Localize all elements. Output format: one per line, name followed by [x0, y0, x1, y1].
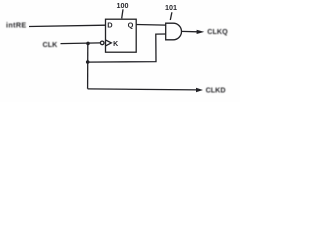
svg-text:Q: Q [128, 20, 134, 29]
wire CLK to clock bubble [61, 42, 101, 45]
svg-text:intRE: intRE [6, 20, 27, 29]
svg-text:101: 101 [165, 3, 177, 12]
svg-text:CLKD: CLKD [206, 85, 226, 94]
wire AND output to CLKQ [182, 30, 198, 32]
wire Q output to AND gate upper input [136, 24, 166, 27]
svg-text:K: K [113, 41, 118, 48]
wire tap to AND gate lower input [88, 34, 166, 62]
leader line for 100 [122, 9, 123, 18]
AND gate U101 body [166, 23, 182, 40]
arrowhead CLKQ [197, 30, 205, 34]
wire vertical CLK branch [87, 43, 89, 88]
svg-text:100: 100 [117, 1, 129, 10]
svg-text:CLK: CLK [43, 40, 59, 49]
junction dot on vertical branch [86, 60, 90, 64]
leader line for 101 [170, 12, 172, 20]
wire bottom rail to CLKD [88, 89, 198, 90]
svg-text:CLKQ: CLKQ [207, 27, 228, 36]
wire intRE to D input [29, 25, 106, 26]
junction dot on CLK wire [86, 42, 90, 46]
arrowhead CLKD [196, 88, 203, 92]
clock inversion bubble [100, 41, 104, 45]
svg-text:D: D [107, 20, 113, 29]
clock wedge [106, 40, 112, 46]
flip-flop U100 body [106, 19, 137, 52]
